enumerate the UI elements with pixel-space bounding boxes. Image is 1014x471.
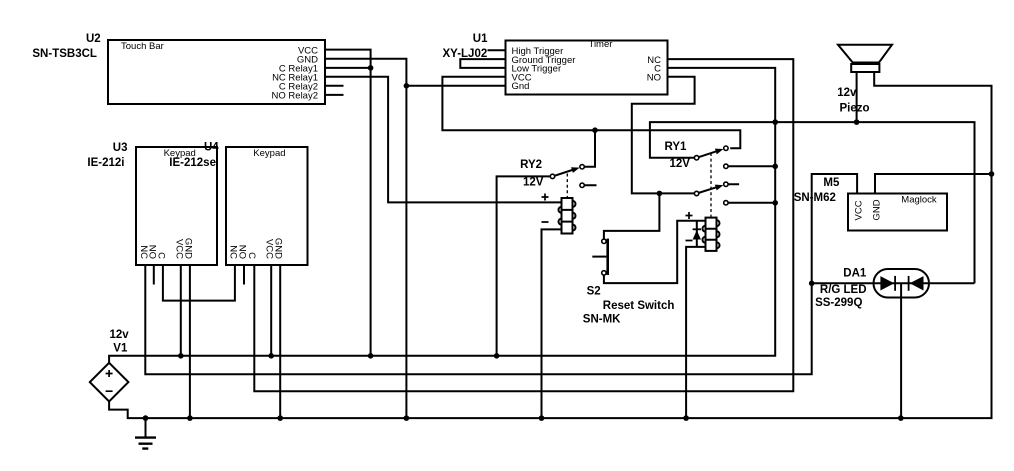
svg-text:NO: NO — [647, 72, 661, 83]
svg-text:Reset Switch: Reset Switch — [603, 300, 675, 312]
svg-text:Keypad: Keypad — [164, 148, 196, 159]
svg-text:Touch Bar: Touch Bar — [121, 41, 164, 52]
svg-text:U2: U2 — [86, 33, 101, 45]
svg-text:Keypad: Keypad — [253, 148, 285, 159]
svg-text:RY1: RY1 — [665, 141, 688, 153]
svg-text:SN-M62: SN-M62 — [794, 192, 836, 204]
svg-text:12v: 12v — [837, 87, 857, 99]
svg-text:GND: GND — [871, 199, 882, 220]
svg-text:DA1: DA1 — [843, 267, 867, 279]
svg-text:U1: U1 — [473, 33, 488, 45]
svg-text:VCC: VCC — [853, 200, 864, 220]
svg-text:R/G LED: R/G LED — [820, 284, 867, 296]
svg-text:12v: 12v — [110, 329, 130, 341]
svg-text:SN-TSB3CL: SN-TSB3CL — [32, 48, 97, 60]
svg-text:SS-299Q: SS-299Q — [815, 297, 862, 309]
svg-text:NO Relay2: NO Relay2 — [272, 91, 318, 102]
svg-text:C: C — [246, 252, 257, 259]
svg-text:NO: NO — [237, 245, 248, 259]
svg-text:U4: U4 — [204, 142, 219, 154]
svg-text:Timer: Timer — [589, 39, 613, 50]
svg-text:C: C — [155, 252, 166, 259]
svg-text:S2: S2 — [587, 286, 601, 298]
svg-text:Piezo: Piezo — [840, 103, 870, 115]
svg-text:IE-212i: IE-212i — [87, 157, 124, 169]
svg-text:GND: GND — [182, 238, 193, 259]
svg-text:V1: V1 — [113, 343, 128, 355]
svg-text:RY2: RY2 — [520, 159, 542, 171]
svg-text:12V: 12V — [670, 158, 691, 170]
svg-text:Maglock: Maglock — [901, 195, 937, 206]
svg-text:Gnd: Gnd — [512, 81, 530, 92]
svg-text:12V: 12V — [523, 176, 544, 188]
svg-text:M5: M5 — [823, 177, 840, 189]
svg-text:XY-LJ02: XY-LJ02 — [443, 48, 488, 60]
svg-text:U3: U3 — [113, 142, 128, 154]
svg-text:SN-MK: SN-MK — [583, 314, 621, 326]
svg-text:GND: GND — [273, 238, 284, 259]
